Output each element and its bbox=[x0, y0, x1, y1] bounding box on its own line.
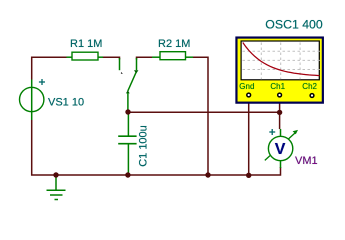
wire scope Ch1 down to VM1 bbox=[279, 97, 281, 129]
node junction R2 branch bottom bbox=[205, 172, 210, 177]
switch SW1 (SPDT, blade to right throw) bbox=[120, 58, 139, 111]
svg-text:OSC1 400: OSC1 400 bbox=[265, 18, 323, 32]
wire switch right terminal to R2 bbox=[137, 57, 153, 59]
wire bottom rail bbox=[32, 120, 281, 175]
node junction Ch1/VM1 bbox=[277, 110, 282, 115]
wire middle horizontal node from switch common to Ch1 node bbox=[128, 111, 280, 113]
svg-text:Ch2: Ch2 bbox=[302, 82, 317, 91]
node junction capacitor bottom bbox=[125, 172, 130, 177]
oscilloscope OSC1 body bbox=[236, 38, 322, 103]
scope grid lines bbox=[243, 43, 320, 80]
capacitor C1 bbox=[118, 112, 136, 175]
voltmeter VM1 bbox=[265, 129, 298, 168]
wire R2 right down to bottom rail bbox=[193, 57, 208, 175]
scope terminal Ch1 bbox=[278, 93, 282, 97]
svg-text:R2 1M: R2 1M bbox=[158, 38, 190, 50]
node junction scope Gnd bottom bbox=[246, 173, 251, 178]
wire top from VS1 to R1 bbox=[32, 57, 67, 79]
node junction ground on bottom rail bbox=[53, 172, 58, 177]
svg-text:Ch1: Ch1 bbox=[270, 82, 285, 91]
svg-text:VS1 10: VS1 10 bbox=[48, 97, 84, 109]
svg-text:C1 100u: C1 100u bbox=[138, 125, 150, 167]
node junction switch/cap/mid-wire bbox=[125, 109, 130, 114]
scope terminal Ch2 bbox=[310, 94, 314, 98]
svg-text:R1 1M: R1 1M bbox=[70, 38, 102, 50]
scope trace curve bbox=[243, 43, 320, 76]
voltage source VS1 bbox=[20, 79, 46, 120]
wire R1 to switch left contact bbox=[103, 57, 120, 59]
svg-text:Gnd: Gnd bbox=[239, 82, 254, 91]
resistor R2 bbox=[152, 52, 193, 60]
wire scope Gnd down to bottom rail bbox=[248, 97, 250, 175]
resistor R1 bbox=[67, 52, 104, 60]
ground bbox=[47, 176, 66, 200]
svg-text:VM1: VM1 bbox=[295, 155, 318, 167]
scope terminal Gnd bbox=[247, 93, 251, 97]
svg-text:V: V bbox=[275, 141, 286, 158]
